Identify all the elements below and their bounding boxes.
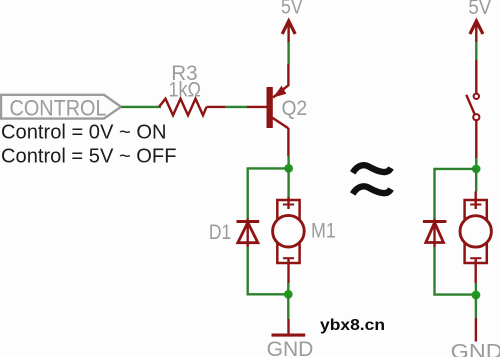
wire green into junction [287, 156, 289, 170]
wire diode branch down [246, 167, 248, 218]
svg-text:5V: 5V [281, 0, 303, 19]
wire diode to bottom corner [248, 247, 289, 294]
svg-text:Q2: Q2 [282, 97, 308, 120]
wire green (right 5V) [475, 42, 477, 60]
svg-text:D1: D1 [209, 221, 231, 244]
svg-text:ybx8.cn: ybx8.cn [320, 317, 385, 334]
transistor Q2 [267, 85, 289, 128]
diode D1 [237, 219, 260, 248]
ground left [272, 319, 306, 335]
approx equal symbol [353, 165, 391, 194]
svg-text:GND: GND [267, 338, 314, 357]
wire junction down (green) [475, 295, 477, 318]
wire motor to bottom junction (green) [287, 283, 289, 294]
wire green mid segment [225, 106, 247, 108]
power 5V left [281, 0, 303, 42]
wire collector pin (red) [287, 128, 289, 156]
wire junction to right diode branch [435, 168, 477, 170]
net label CONTROL [1, 95, 121, 121]
ground right (stub) [475, 318, 477, 342]
wire right junction to motor (green) [475, 169, 477, 192]
node junction bottom left [284, 290, 293, 299]
wire emitter pin (red) [287, 64, 289, 86]
svg-text:Control = 0V ~ ON: Control = 0V ~ ON [1, 120, 167, 143]
svg-text:Control = 5V ~ OFF: Control = 5V ~ OFF [1, 145, 177, 168]
motor M (right) [460, 192, 491, 284]
svg-text:CONTROL: CONTROL [10, 95, 107, 120]
svg-text:GND: GND [451, 340, 500, 357]
node junction top left [284, 164, 293, 173]
wire resistor right lead (red) [207, 106, 226, 108]
wire right motor to bottom junction [475, 283, 477, 295]
wire red to switch [475, 60, 477, 94]
wire control tag to resistor [121, 106, 161, 108]
svg-text:M1: M1 [311, 219, 336, 242]
wire base pin (red) [247, 106, 267, 108]
wire right diode branch down [433, 168, 435, 219]
wire right diode to bottom corner [435, 247, 476, 295]
switch S1 [466, 94, 479, 121]
resistor R3 [159, 99, 207, 116]
wire junction to diode branch (horizontal) [248, 167, 289, 169]
wire switch to junction (red) [475, 120, 477, 158]
wire junction to ground (green) [287, 294, 289, 319]
svg-text:1kΩ: 1kΩ [169, 79, 202, 102]
power 5V right [468, 0, 491, 42]
diode D (right) [423, 219, 447, 248]
wire junction to motor (green) [287, 168, 289, 197]
motor M1 [273, 197, 305, 283]
wire green (5V to emitter) [287, 42, 289, 64]
node junction top right [472, 165, 481, 174]
svg-text:5V: 5V [468, 0, 491, 19]
wire green into right junction [475, 158, 477, 170]
node junction bottom right [472, 291, 481, 300]
